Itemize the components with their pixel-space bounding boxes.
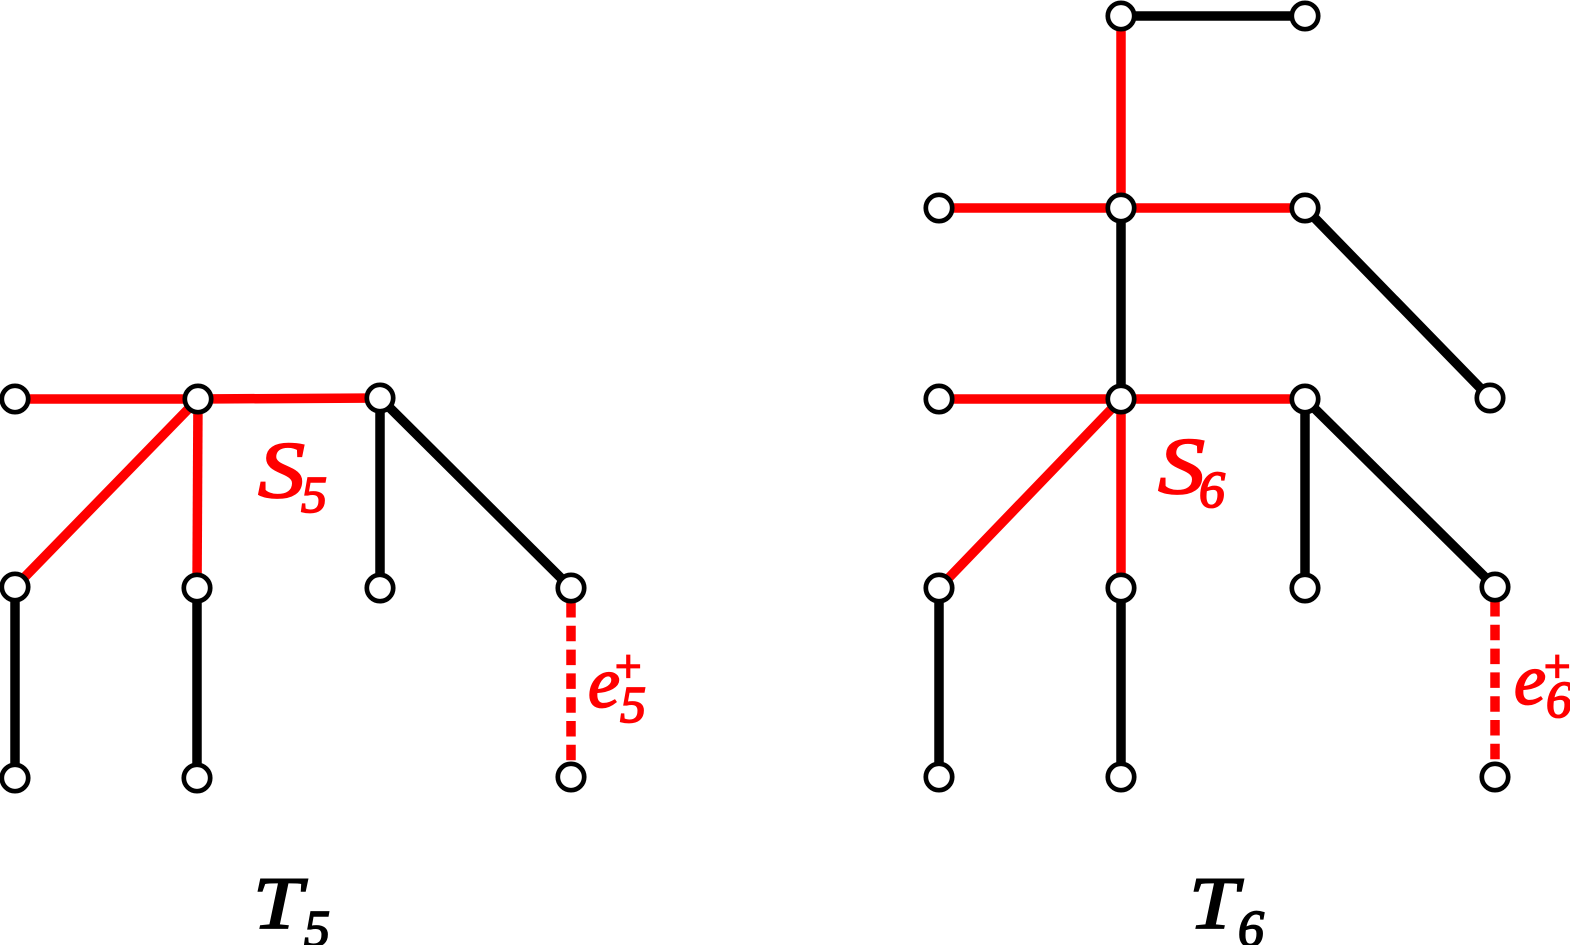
wire black edge A3-B4 diagonal xyxy=(380,398,571,588)
node T5 C1 xyxy=(2,765,28,791)
wire red edge E1-E2 xyxy=(939,203,1121,213)
wire black edge F3-H3 vertical xyxy=(1300,399,1310,588)
wire red edge E2-E3 xyxy=(1121,203,1305,213)
wire black edge F3-H4 diagonal xyxy=(1305,399,1495,587)
node T5 B4 xyxy=(558,575,584,601)
svg-text:6: 6 xyxy=(1238,901,1264,945)
wire red edge F2-H1 diagonal xyxy=(939,399,1121,588)
svg-text:T: T xyxy=(253,863,308,945)
svg-text:T: T xyxy=(1189,863,1244,945)
node T6 G4 xyxy=(1477,385,1503,411)
node T6 E1 xyxy=(926,195,952,221)
node T5 A1 xyxy=(2,386,28,412)
wire red edge F2-F3 xyxy=(1121,394,1305,404)
wire red edge D1-E2 vertical xyxy=(1116,16,1126,208)
node T6 H4 xyxy=(1482,574,1508,600)
wire black edge E2-F2 vertical xyxy=(1116,208,1126,399)
svg-text:S: S xyxy=(258,427,305,515)
node T6 D2 xyxy=(1292,3,1318,29)
wire red edge A2-B1 diagonal xyxy=(15,399,198,587)
svg-text:5: 5 xyxy=(304,901,330,945)
node T5 C4 xyxy=(558,764,584,790)
wire black edge H2-I2 vertical xyxy=(1116,588,1126,777)
wire black edge B1-C1 xyxy=(10,587,20,778)
label T6 xyxy=(1189,863,1264,945)
wire red edge A2-B2 vertical xyxy=(197,399,198,588)
label e5+ xyxy=(588,641,646,734)
node T5 C2 xyxy=(184,765,210,791)
wire black edge E3-G4 long diagonal xyxy=(1305,208,1490,398)
wire red edge F2-H2 vertical xyxy=(1116,399,1126,588)
node T6 H1 xyxy=(926,575,952,601)
node T5 A3 xyxy=(367,385,393,411)
label S6 xyxy=(1158,423,1225,519)
wire red edge A2-A3 xyxy=(198,398,380,399)
wire black edge A3-B3 vertical xyxy=(375,398,385,588)
svg-text:6: 6 xyxy=(1546,672,1570,729)
svg-text:S: S xyxy=(1158,423,1205,511)
node T6 E2 xyxy=(1108,195,1134,221)
label S5 xyxy=(258,427,327,524)
node T6 I2 xyxy=(1108,764,1134,790)
wire black edge D1-D2 top xyxy=(1121,11,1305,21)
node T6 F2 xyxy=(1108,386,1134,412)
node T6 I1 xyxy=(926,764,952,790)
node T6 F3 xyxy=(1292,386,1318,412)
label e6+ xyxy=(1514,640,1570,729)
svg-text:6: 6 xyxy=(1199,462,1225,519)
wire red dashed edge e5 B4-C4 xyxy=(566,602,576,763)
wire red dashed edge e6 H4-I4 xyxy=(1490,601,1500,763)
node T5 A2 xyxy=(185,386,211,412)
wire red edge F1-F2 xyxy=(939,394,1121,404)
node T6 I4 xyxy=(1482,764,1508,790)
node T5 B1 xyxy=(2,574,28,600)
wire red edge A1-A2 xyxy=(15,394,198,404)
node T6 D1 xyxy=(1108,3,1134,29)
node T5 B2 xyxy=(184,575,210,601)
node T5 B3 xyxy=(367,575,393,601)
node T6 H3 xyxy=(1292,575,1318,601)
node T6 H2 xyxy=(1108,575,1134,601)
node T6 F1 xyxy=(926,386,952,412)
wire black edge B2-C2 xyxy=(192,588,202,778)
svg-text:5: 5 xyxy=(620,677,646,734)
label T5 xyxy=(253,863,330,945)
wire black edge H1-I1 vertical xyxy=(934,588,944,777)
svg-text:5: 5 xyxy=(301,467,327,524)
node T6 E3 xyxy=(1292,195,1318,221)
